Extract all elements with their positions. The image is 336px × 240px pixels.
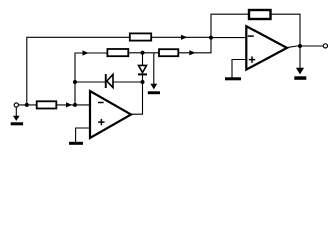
wire: feedback resistor to right corner down to output: [271, 14, 301, 46]
wire: op1 noninverting input to ground: [76, 128, 90, 142]
ground: output (arrow style): [294, 68, 306, 80]
diode D2 (vertical, cathode down): [138, 65, 147, 75]
resistor R2 (mid row left): [107, 49, 128, 56]
op-amp U2: [246, 26, 287, 69]
wire: mid row from op1 node riser: [75, 53, 107, 105]
ground: input terminal (arrow style): [11, 116, 23, 126]
output terminal circle: [323, 44, 327, 48]
wire: mid row R3 to corner up to J2: [178, 38, 211, 53]
resistor R5 (op2 feedback): [249, 10, 271, 19]
flow arrow a1 (input wire): [66, 102, 72, 107]
junction: op1 node at D1 row: [73, 80, 77, 84]
flow arrow a3 (top row): [181, 35, 187, 40]
ground: op1 noninverting (bar style): [69, 142, 83, 145]
input terminal circle: [14, 103, 18, 107]
wire: output ground stem: [299, 46, 301, 69]
resistor R1 (input): [37, 101, 57, 108]
ground: mid (arrow style): [148, 84, 160, 94]
junction: op2 inverting node J2: [209, 36, 213, 40]
wire: op2 inverting input from J2: [211, 37, 246, 39]
wire: input ground stem: [15, 107, 17, 116]
resistor R3 (mid row right): [159, 49, 178, 56]
flow arrow a2 (mid row): [83, 50, 89, 55]
wire: input circle to junction J1: [18, 104, 36, 106]
wire: junction A down to D2 anode: [142, 53, 144, 66]
op-amp U1: [90, 91, 131, 138]
junction: op1 inverting node: [73, 103, 77, 107]
wire: ground stem from mid row: [153, 53, 155, 84]
ground: op2 noninverting (bar style): [225, 77, 241, 80]
junction: node A (mid row / D2): [141, 51, 145, 55]
wire: D1 anode to junction B: [113, 81, 143, 83]
junction: output node: [298, 44, 302, 48]
wire: D1 row from op1 node to D1 cathode bar: [75, 81, 105, 83]
diode D1 (horizontal, cathode left): [105, 74, 113, 88]
resistor R4 (top row): [130, 33, 151, 40]
junction: node B (D1/D2/op1 out): [141, 80, 145, 84]
flow arrow a4 (mid row after R3): [189, 50, 195, 55]
wire: R1 right to op1 inverting input: [56, 104, 89, 106]
wire: op2 noninverting input to ground: [232, 60, 246, 78]
wire: mid row between R2 and R3: [128, 52, 159, 54]
wire: op2 output to terminal: [286, 46, 323, 48]
wire: D2 cathode to junction B and down to op1 output corner: [131, 75, 143, 114]
wire: riser x27 from top row to input junction: [27, 37, 211, 105]
wire: feedback riser and top loop of op2: [211, 14, 249, 37]
junction: input node J1: [25, 103, 29, 107]
